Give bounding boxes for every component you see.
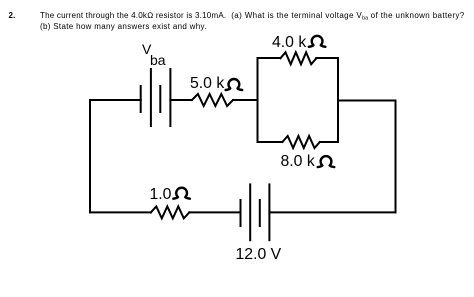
wire left vertical xyxy=(89,100,91,212)
label 4.0 k xyxy=(272,35,306,51)
node parallel box left edge xyxy=(257,58,259,142)
problem statement text xyxy=(40,12,474,30)
wire battery Vba to 5.0k resistor xyxy=(170,99,192,101)
node parallel box right edge xyxy=(337,58,339,142)
label 8.0 k xyxy=(281,154,315,170)
wire box top edge left xyxy=(258,57,281,59)
resistor 1.0 ohm zigzag xyxy=(151,206,190,218)
omega glyph of label 1.0 ohm xyxy=(173,188,190,199)
label 1.0 xyxy=(150,187,172,203)
battery Vba plates xyxy=(141,69,171,126)
wire bottom-left: corner to 1.0 ohm resistor xyxy=(90,211,151,213)
wire 1.0 ohm resistor to battery 12V xyxy=(189,211,240,213)
wire 5.0k resistor to parallel box xyxy=(233,99,258,101)
wire box to right corner xyxy=(338,100,396,102)
omega glyph of label 4.0 kohm xyxy=(309,36,326,47)
label 12.0 V xyxy=(236,247,282,263)
wire right vertical xyxy=(395,101,397,213)
resistor 5.0k ohm zigzag xyxy=(192,94,233,106)
omega glyph of label 8.0 kohm xyxy=(318,156,335,167)
wire top-left: left corner to battery Vba xyxy=(90,99,141,101)
wire box bottom edge left xyxy=(258,141,283,143)
resistor 4.0k ohm zigzag xyxy=(280,52,316,64)
omega glyph of label 5.0 kohm xyxy=(226,79,243,90)
label 5.0 k xyxy=(190,76,224,92)
label Vba (battery Vba) xyxy=(142,42,151,56)
wire box bottom edge right xyxy=(320,141,338,143)
resistor 8.0k ohm zigzag xyxy=(282,136,319,148)
battery 12V plates xyxy=(241,184,270,240)
wire box top edge right xyxy=(316,57,338,59)
problem number 2. xyxy=(9,12,16,20)
wire bottom-right: corner to battery 12V xyxy=(269,211,395,213)
